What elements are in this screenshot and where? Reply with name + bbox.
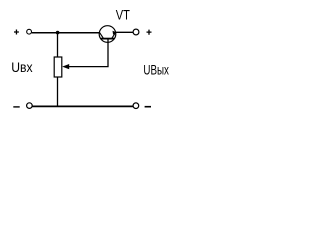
wire potentiometer bottom to bottom rail: [57, 77, 59, 107]
svg-text:VT: VT: [116, 8, 131, 23]
transistor VT emitter lead with arrow: [112, 33, 116, 39]
wire bottom rail: [32, 105, 133, 107]
terminal X3 bottom-left: [27, 103, 33, 109]
terminal X4 bottom-right: [133, 103, 139, 109]
transistor VT collector lead: [100, 33, 104, 39]
plus sign right output terminal: [147, 30, 152, 35]
terminal X2 top-right: [133, 29, 139, 35]
terminal X1 top-left: [27, 29, 32, 34]
plus sign left input terminal: [14, 30, 19, 35]
resistor R1 potentiometer body: [54, 57, 62, 77]
minus sign left bottom terminal: [13, 106, 19, 108]
wiper arrow of potentiometer: [62, 64, 69, 69]
minus sign right bottom terminal: [145, 106, 151, 108]
transistor VT emitter arrowhead: [113, 31, 117, 35]
svg-text:UВых: UВых: [143, 62, 169, 78]
transistor VT base bar: [101, 38, 115, 40]
transistor VT circle: [99, 26, 116, 43]
wire wiper to transistor base: [67, 39, 108, 67]
svg-text:Uвх: Uвх: [11, 59, 33, 75]
wire top rail: [32, 32, 100, 34]
wire junction to potentiometer top: [57, 33, 59, 57]
wire emitter to output terminal: [116, 31, 133, 33]
node A junction dot: [56, 31, 60, 35]
